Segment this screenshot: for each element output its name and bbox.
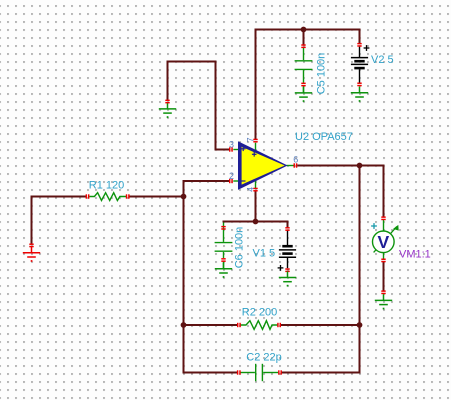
wire R2 right segment (281, 324, 361, 326)
ground below C6 (215, 263, 232, 273)
svg-text:V2 5: V2 5 (371, 54, 394, 66)
pin marks C2 right (278, 370, 282, 374)
wire R1 left segment (31, 196, 87, 198)
wire pin3 stub (215, 149, 231, 151)
wire pin4 drop (255, 192, 257, 223)
wire input vertical to red ground (31, 196, 33, 245)
svg-text:2: 2 (229, 171, 234, 181)
svg-text:4: 4 (246, 187, 256, 192)
pin marks R1 right (126, 194, 130, 198)
pin marks V2 bottom (357, 83, 361, 87)
wire jumper horizontal (167, 61, 217, 63)
svg-text:V: V (378, 232, 390, 252)
pin marks op-amp pin6 (294, 163, 298, 167)
wire feedback vertical (183, 180, 185, 374)
op-amp supply plus marker (252, 152, 257, 157)
wire mid supply horizontal (223, 221, 289, 223)
ground red at input (23, 247, 40, 257)
svg-text:U2 OPA657: U2 OPA657 (295, 131, 353, 143)
ground below C5 (295, 87, 312, 97)
node junction output/feedback (357, 163, 363, 169)
pin marks jumper ground (165, 100, 169, 104)
svg-text:R1 120: R1 120 (89, 180, 124, 192)
wire output horizontal (297, 165, 384, 167)
wire V2 stub (359, 29, 361, 44)
pin marks voltmeter top (381, 216, 385, 220)
wire top supply rail (255, 29, 361, 31)
resistor R2 (240, 321, 278, 330)
voltmeter VM1 (373, 219, 399, 259)
plus sign voltmeter (371, 223, 377, 229)
wire voltmeter drop (383, 165, 385, 218)
wire V1 stub (287, 221, 289, 228)
pin marks V2 top (357, 43, 361, 47)
svg-text:6: 6 (293, 155, 298, 165)
pin marks C6 top (221, 226, 225, 230)
node junction supply/C5 (301, 27, 307, 33)
svg-text:3: 3 (229, 140, 234, 150)
svg-text:C2 22p: C2 22p (246, 352, 281, 364)
op-amp U2 pin leads (233, 143, 294, 189)
ground at jumper (159, 103, 176, 113)
pin marks op-amp pin2 (229, 179, 233, 183)
op-amp plus input marker (241, 147, 246, 152)
wire pin2 stub (183, 180, 231, 182)
wire C2 right segment (281, 372, 360, 374)
svg-text:R2 200: R2 200 (242, 307, 277, 319)
pin marks R2 left (237, 323, 241, 327)
pin marks C5 bottom (301, 83, 305, 87)
node junction R2 right/output (357, 322, 363, 328)
pin marks R1 left (86, 194, 90, 198)
pin marks R2 right (277, 323, 281, 327)
plus sign V2 (364, 45, 370, 51)
svg-text:V1 5: V1 5 (253, 248, 276, 260)
svg-text:VM1:1: VM1:1 (399, 249, 431, 261)
wire jumper left leg (167, 61, 169, 101)
node junction input/feedback (181, 194, 187, 200)
capacitor C6 (215, 223, 233, 269)
capacitor C2 (240, 364, 278, 381)
ground below voltmeter (375, 294, 392, 304)
plus sign V1 (278, 265, 284, 271)
wire pin7 drop (255, 29, 257, 140)
ground below V2 (351, 87, 368, 97)
wire voltmeter to ground (383, 262, 385, 292)
svg-text:C6 100n: C6 100n (234, 227, 246, 269)
ground below V1 (279, 271, 296, 281)
svg-text:7: 7 (246, 137, 256, 142)
pin marks V1 bottom (285, 268, 289, 272)
op-amp minus input marker (241, 180, 246, 182)
wire R2 left segment (183, 324, 238, 326)
pin marks op-amp pin4 (253, 188, 257, 192)
wire R1 right segment (129, 196, 185, 198)
pin marks C5 top (301, 44, 305, 48)
pin marks op-amp pin7 (253, 139, 257, 143)
wire output feedback vertical (359, 165, 361, 374)
battery V2 (351, 47, 368, 83)
pin marks red ground (29, 244, 33, 248)
wire C5 stub (303, 29, 305, 46)
pin marks voltmeter ground (381, 290, 385, 294)
wire jumper right leg (215, 61, 217, 151)
pin marks voltmeter bottom (381, 259, 385, 263)
op-amp U2 body (238, 141, 288, 190)
resistor R1 (89, 193, 126, 201)
pin marks op-amp pin3 (229, 147, 233, 151)
battery V1 (279, 231, 296, 269)
wire C2 left segment (183, 372, 238, 374)
capacitor C5 (295, 48, 313, 93)
node junction feedback/R2 left (181, 322, 187, 328)
node junction pin4/mid rail (253, 219, 259, 225)
svg-text:C5 100n: C5 100n (316, 53, 328, 95)
pin marks C6 bottom (221, 258, 225, 262)
pin marks V1 top (285, 227, 289, 231)
pin marks C2 left (237, 370, 241, 374)
